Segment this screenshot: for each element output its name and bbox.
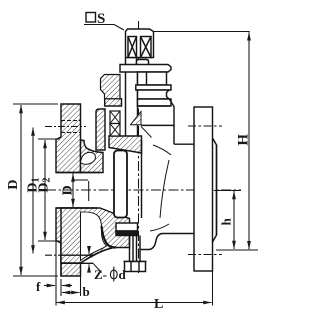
body hub above bore (hatched) [81, 140, 104, 173]
body interior curve right 1 [153, 145, 171, 155]
dimension H line [248, 32, 250, 249]
bonnet neck fillet arc [141, 127, 152, 138]
bonnet flange exterior right [138, 100, 195, 145]
seat vertical edge [88, 181, 90, 201]
stem square block with X marks [126, 29, 154, 58]
extension line top (H) [154, 31, 250, 33]
svg-text:L: L [154, 297, 163, 312]
upper bolt centerline [45, 126, 86, 128]
bottom nut [124, 262, 147, 272]
leader for Z-phi-d label [94, 264, 102, 273]
lower bolt hole edge lines (overlay) [61, 255, 94, 263]
svg-text:D: D [6, 179, 21, 189]
Z-phi-d hole diameter arrows [88, 248, 90, 272]
bottom gasket bar [116, 223, 138, 236]
extension line bottom (H,h) [216, 249, 258, 251]
cavity pocket below plug (white) [81, 212, 107, 261]
bore top line [56, 172, 100, 174]
packing rings X symbols [110, 111, 120, 136]
square symbol of S label [86, 13, 96, 23]
svg-text:h: h [219, 217, 234, 225]
body bottom wall thick edge [102, 226, 117, 248]
dimension L line [57, 271, 213, 306]
gland top wide bar [120, 65, 171, 73]
dimension D1 line [32, 128, 34, 254]
body cavity right wall edge [141, 140, 143, 218]
right flange raised face [213, 138, 217, 242]
body wall below bore (hatched) [61, 208, 130, 263]
svg-text:f: f [36, 279, 41, 294]
svg-text:H: H [236, 134, 252, 146]
bottom adjusting bolt (threaded) [130, 236, 141, 262]
wire: horizontal pipe centerline [46, 189, 241, 191]
lower bolt centerline [45, 254, 86, 256]
dimension D extension lines [13, 104, 58, 276]
dimension b line [62, 276, 81, 296]
svg-text:S: S [97, 11, 105, 27]
stem shoulder step [137, 60, 149, 65]
svg-text:Z-: Z- [94, 267, 107, 282]
left flange upper section (hatched) [56, 104, 81, 173]
gland bottom bar (hatched) [109, 136, 142, 153]
body bottom left edge [81, 248, 115, 264]
bonnet neck rect [138, 99, 172, 106]
gland middle flange [136, 85, 171, 90]
gland follower collar (hatched) [105, 99, 122, 106]
gland upper cylinder [138, 72, 167, 85]
seat horizontal edge [74, 179, 88, 181]
upper bolt hole (dashed) [61, 121, 81, 133]
stem shaft [126, 58, 138, 137]
left flange lower section (hatched) [56, 208, 94, 276]
bore bottom line [56, 207, 98, 209]
plug (tapered) outline [114, 151, 127, 218]
bonnet neck left wall (hatched) [96, 109, 105, 150]
dimension D2 line [44, 140, 46, 240]
h extension solid segment [214, 190, 241, 192]
body bottom profile (low face, S-rise, shelf to flange) [140, 234, 194, 250]
dimension D2 extension lines [38, 139, 60, 241]
svg-text:D: D [60, 185, 75, 195]
svg-text:d: d [119, 267, 127, 282]
right flange lower bolt centerline [188, 254, 222, 256]
gland lug wedge (hatched) [131, 112, 142, 125]
wire: vertical stem centerline [138, 21, 140, 273]
gland nut (hatched, left) [101, 75, 121, 99]
leader for square S label [84, 25, 124, 31]
right flange upper bolt centerline [188, 125, 222, 127]
right flange outline [194, 107, 213, 271]
body interior curve right 2 [160, 160, 169, 218]
cavity pocket upper left (white blob) [81, 152, 96, 164]
dimension f extension+arrows [44, 236, 72, 306]
dimension D line [20, 105, 22, 275]
packing nut trapezoid [138, 90, 170, 99]
dimension h line [233, 191, 235, 249]
body interior curve right 3 [150, 224, 169, 231]
svg-text:b: b [83, 284, 90, 299]
dimension D bore line [72, 174, 74, 208]
